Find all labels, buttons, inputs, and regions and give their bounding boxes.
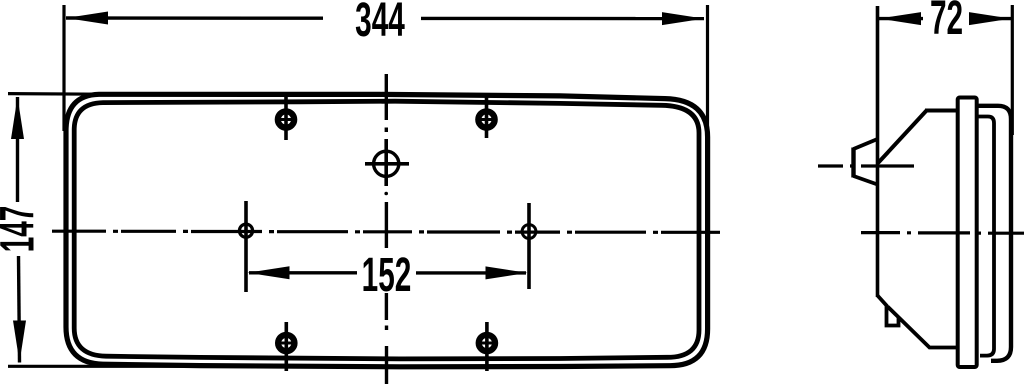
- side view housing top slant: [878, 111, 927, 164]
- front view inner lens outline: [74, 101, 699, 359]
- dim 344 right extension line: [706, 5, 709, 140]
- side view stud axis centerline: [818, 164, 914, 167]
- mounting hole top-left: [278, 96, 294, 140]
- side view mounting stud: [854, 139, 878, 185]
- dim 147 top extension line: [8, 92, 100, 96]
- dim 152 right arrowhead: [486, 266, 528, 279]
- dim 147 bottom arrowhead: [13, 321, 26, 363]
- side view lens outer profile: [977, 106, 1011, 361]
- fixing hole middle-left: [239, 201, 252, 292]
- dim 147 top arrowhead: [11, 97, 24, 139]
- dim 72 left arrowhead: [879, 12, 921, 25]
- fixing hole middle-right: [522, 203, 536, 289]
- side view: dim 72 left extension + housing back edge: [876, 6, 880, 297]
- horizontal centerline front view: [52, 231, 720, 232]
- side view: dim 72 right extension line: [1011, 5, 1014, 135]
- dim 147 dimension line: [16, 97, 19, 202]
- svg-text:152: 152: [362, 249, 412, 302]
- side view horizontal centerline: [861, 231, 1024, 235]
- side view lens inner step line: [979, 117, 995, 356]
- mounting hole bottom-left: [278, 322, 294, 371]
- mounting hole top-right: [478, 96, 494, 138]
- dim 344 dimension line: [66, 16, 323, 20]
- dim 72 right arrowhead: [969, 12, 1011, 25]
- vertical centerline front view: [385, 74, 389, 384]
- dim 152 dimension line: [249, 271, 357, 274]
- svg-text:344: 344: [355, 0, 405, 47]
- side view housing bottom slant: [878, 296, 958, 348]
- svg-text:72: 72: [930, 0, 963, 45]
- dim 344 right arrowhead: [662, 12, 704, 25]
- svg-text:147: 147: [0, 206, 45, 252]
- dim 344 left extension line: [62, 5, 65, 131]
- dim 152 left arrowhead: [248, 266, 290, 279]
- dim 344 left arrowhead: [66, 12, 108, 25]
- side view base plate: [958, 98, 977, 368]
- dim 72 dimension line: [879, 17, 923, 20]
- side view housing top edge: [925, 109, 958, 113]
- center locating marker: [365, 139, 409, 195]
- mounting hole bottom-right: [479, 322, 495, 371]
- dim 147 bottom extension line: [8, 365, 400, 368]
- front view outer housing outline: [66, 94, 708, 367]
